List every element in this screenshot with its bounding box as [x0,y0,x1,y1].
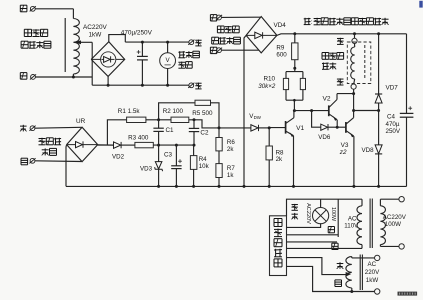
wire lamp branch right [337,199,339,237]
transformer T1 primary AC110V [357,199,362,244]
label V3 z2 [339,142,349,156]
svg-text:VD7: VD7 [386,84,399,91]
zener diode VDW [219,125,269,131]
terminal T2 top [375,255,380,260]
junction dots ground rail [157,185,380,188]
resistor R4 10k [190,145,197,186]
svg-text:C1: C1 [166,127,175,134]
terminal BLUE lower-right (lan) [210,47,222,53]
label jie-li-ci / gong-dian-rao-zu [212,26,241,44]
bridge rectifier VD4 [246,17,277,53]
label winding: jie-li-ci / gong-dian-rao-zu [21,29,51,48]
svg-text:220V: 220V [365,269,380,276]
wire bridge bottom drop [107,76,110,86]
label C2 [200,130,209,137]
watermark blue top right [419,1,422,8]
svg-text:2k: 2k [227,146,234,153]
transformer T2 winding AC220V 1kW [346,257,375,292]
svg-text:30k×2: 30k×2 [258,83,276,90]
label AC220V vertical [305,203,311,224]
wire tap vertical [91,42,93,85]
bridge rectifier UR [67,127,98,161]
svg-text:C2: C2 [200,130,209,137]
wire top positive rail [277,34,407,36]
svg-text:R10: R10 [264,76,276,83]
wire ground rail [66,185,407,187]
junction [310,109,313,112]
field winding coil [351,44,355,85]
label VD3 [140,166,153,173]
label R4 10k [199,156,210,170]
svg-text:R3 400: R3 400 [128,135,149,142]
zener diode VD3 [155,145,163,186]
terminal YELLOW lower (huang) [188,83,201,89]
svg-text:C4: C4 [387,113,395,120]
svg-text:600: 600 [276,51,287,58]
svg-text:VD3: VD3 [140,166,153,173]
diode VD6 [312,111,338,131]
wire [35,126,82,129]
wire [35,160,82,163]
label VD8 [362,147,375,154]
capacitor C4 470u 250V [400,106,414,186]
wire blue lead 2 [287,242,339,250]
label VD2 [112,153,125,160]
wire [35,9,73,19]
label R8 2k [276,149,284,163]
capacitor C1 [153,120,163,145]
svg-text:VD2: VD2 [112,153,125,160]
svg-text:AC220V: AC220V [83,24,108,31]
resistor R1 1.5k [127,117,159,122]
wire [98,144,114,146]
label VD4 [274,22,287,29]
junction [157,144,195,147]
dashed core line [364,45,366,80]
wire tap lead green [287,258,352,277]
svg-text:1kW: 1kW [89,32,103,39]
transistor V1 [269,111,294,187]
label R9 600 [276,45,287,59]
wire riser to R1 [107,120,126,145]
label R10 30kx2 [258,76,276,90]
wire lamp feed [287,199,363,216]
terminal RED (hong) [337,32,357,44]
svg-text:AC: AC [348,216,357,223]
junction node A [157,118,160,121]
label UR [76,118,86,125]
svg-text:VD6: VD6 [318,134,331,141]
wire [222,16,261,18]
terminal T1 sec bottom [399,244,404,249]
svg-text:UR: UR [76,118,86,125]
label C3 [164,152,173,159]
svg-text:AC: AC [368,261,377,268]
svg-text::: : [311,19,313,26]
wire [354,109,381,112]
wire bottom lead white [287,266,375,291]
label C1 [166,127,175,134]
svg-text:110V: 110V [344,223,359,230]
resistor R7 1k [216,151,222,187]
label C4 470u 250V [386,113,401,135]
svg-text:DW: DW [254,115,262,120]
terminal BLUE bottom-left (lan) [20,73,36,80]
label jie-qu-yang-rao-zu [39,138,62,156]
label 470u/250V [121,30,153,37]
label VDW [249,113,262,120]
capacitor C3 [171,145,182,186]
transformer T1 core [370,199,372,249]
indicator lamp [313,208,329,224]
dashed frame external field winding [347,42,371,84]
label jie-li-ci-rao-zu [178,51,199,68]
junction [293,99,296,112]
svg-text:R5 500: R5 500 [192,110,213,117]
label VD6 [318,134,331,141]
capacitor 470u/250V [137,42,148,85]
label AC 220V 1kW [365,261,380,284]
label 100W vertical [330,207,336,222]
svg-text:V2: V2 [323,96,331,103]
diode VD7 [375,32,382,110]
svg-text:V3: V3 [341,142,349,149]
svg-text:1kW: 1kW [366,277,379,284]
svg-text:R1 1.5k: R1 1.5k [118,108,141,115]
junction coil bottom [72,76,75,79]
label hong/huang wires [292,204,298,219]
svg-text:250V: 250V [386,128,401,135]
svg-text:z2: z2 [339,149,347,156]
label lv (green) [337,262,344,269]
transistor V3 [337,111,354,187]
svg-text:470µ: 470µ [386,121,400,128]
wire V2 collector to field terminal [337,92,355,95]
svg-text:100W: 100W [330,207,336,222]
terminal BLUE upper-right (lan) [210,15,222,21]
label R7 1k [227,165,235,179]
resistor R8 2k [266,128,272,186]
inductor L1 generator winding AC220V 1kW [73,19,79,78]
svg-text:AC220V: AC220V [383,214,407,221]
tap arrow [75,40,93,44]
terminal BLUE top-left (lan) [20,5,36,12]
wire UR left to ground rail [65,145,68,187]
svg-text:AC220V: AC220V [305,203,311,224]
label R6 2k [227,139,235,153]
svg-text:2k: 2k [276,156,283,163]
svg-text:C3: C3 [164,152,173,159]
label AC220V 1kW [83,24,108,39]
wire [222,49,259,51]
junction [218,126,271,129]
wire blue lead 1 [287,227,339,235]
svg-text:1k: 1k [227,172,234,179]
wire node bus [294,110,328,112]
svg-text:R4: R4 [199,156,207,163]
note text: dashed frame is external field winding [304,18,389,26]
bridge rectifier B1 [91,42,125,77]
svg-text:R2 100: R2 100 [163,108,184,115]
terminal T2 bottom [375,289,380,294]
label bai (white) [335,280,342,287]
svg-text:V1: V1 [296,125,304,132]
terminal YELLOW upper (huang) [188,40,201,46]
label AC 110V [344,216,359,230]
wire bridge top jog [109,35,126,43]
wire right rail [406,34,408,113]
junction [166,41,169,87]
wire dc+ rail [125,41,189,43]
terminal T1 sec top [399,197,404,202]
wire lamp return [287,224,321,228]
label jie-li-ci-rao-zu (field) [322,53,344,70]
resistor R3 400 [135,142,194,147]
terminal YELLOW field (huang) [337,78,356,89]
resistor R6 2k [216,128,222,151]
junction [336,126,339,129]
voltmeter V [160,42,176,85]
junction [350,290,353,293]
capacitor C2 [189,118,199,145]
core line [64,18,66,72]
wire primary return [287,245,363,249]
label R2 100 [163,108,184,115]
diode VD2 [98,142,135,148]
wire dc- rail [92,84,189,86]
label R1 1.5k [118,108,141,115]
transformer T2 core [360,255,362,291]
watermark bottom right [398,292,418,296]
junction [141,41,144,87]
svg-text:VD8: VD8 [362,147,375,154]
label V1 [296,125,304,132]
transistor V2 [329,94,337,128]
wire [353,89,355,110]
label R3 400 [128,135,149,142]
wire riser to R5 [159,103,195,120]
wire [36,76,93,78]
svg-text:VD4: VD4 [274,22,287,29]
regulator box dian-zi-tiao-jie-qi [270,216,287,276]
terminal GREEN (lv) [20,125,36,132]
label V2 [323,96,331,103]
diode VD8 [375,111,382,187]
wire VD4 left corner down [244,35,246,186]
label R5 500 [192,110,213,117]
terminal WHITE (bai) [21,158,36,165]
resistor R9 600 [292,32,298,69]
wire lamp stub [320,199,322,207]
svg-text:470µ/250V: 470µ/250V [121,30,153,37]
resistor R5 500 [195,100,219,128]
junction [352,109,355,112]
svg-text:100W: 100W [385,221,401,228]
resistor R2 100 [159,117,219,128]
label VD7 [386,84,399,91]
label AC220V 100W [383,214,407,228]
svg-text:10k: 10k [199,163,210,170]
transformer T1 secondary [380,199,399,246]
resistor pair R10 30kx2 [283,68,305,110]
